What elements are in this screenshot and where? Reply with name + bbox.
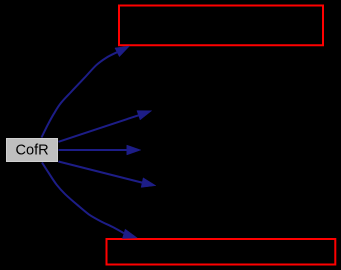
- wire edge CofR to mid-upper: [59, 115, 139, 142]
- wire edge CofR to mid-lower: [59, 162, 143, 183]
- svg-text:CofR: CofR: [15, 143, 48, 159]
- arrowhead mid-lower: [141, 178, 156, 188]
- node CofR: [7, 139, 58, 162]
- arrowhead top: [115, 46, 130, 57]
- wire edge CofR to bottom box: [42, 163, 124, 234]
- node top red box: [119, 6, 323, 46]
- wire edge CofR to top box: [42, 52, 118, 137]
- wire edge CofR to mid: [59, 149, 128, 151]
- arrowhead mid-upper: [137, 111, 152, 120]
- arrowhead mid: [127, 145, 141, 155]
- node bottom red box: [107, 239, 336, 265]
- arrowhead bottom: [122, 229, 137, 238]
